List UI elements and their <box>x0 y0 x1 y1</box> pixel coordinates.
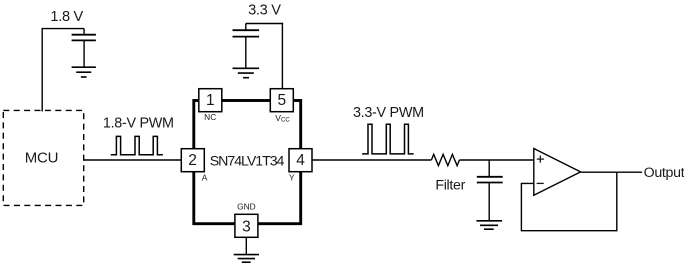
svg-text:1.8 V: 1.8 V <box>50 9 83 25</box>
MCU block <box>3 110 83 205</box>
capacitor: 3.3-V bypass cap <box>233 30 260 36</box>
svg-text:1: 1 <box>206 92 215 109</box>
svg-text:4: 4 <box>296 152 305 169</box>
wire: filter cap to ground <box>488 183 490 221</box>
waveform symbol: 3.3-V PWM pulses <box>362 124 414 154</box>
wire: op-amp output <box>581 171 643 173</box>
pin 4 box <box>289 149 312 172</box>
wire: 1.8-V rail down to MCU <box>41 28 43 112</box>
wire: 3.3-V cap to ground <box>245 37 247 69</box>
ground (1.8-V bypass) <box>72 67 96 77</box>
wire: resistor to op-amp + input <box>459 159 533 161</box>
wire: MCU output to pin 2 (A) <box>84 159 181 161</box>
wire: stub to 3.3-V bypass capacitor <box>245 24 247 31</box>
wire: pin 4 (Y) to filter resistor <box>312 159 431 161</box>
pin 1 box <box>199 89 222 112</box>
waveform symbol: 1.8-V PWM pulses <box>111 136 163 154</box>
op-amp U2 (buffer) <box>534 149 581 196</box>
svg-text:NC: NC <box>204 112 216 122</box>
svg-text:MCU: MCU <box>25 150 59 167</box>
svg-text:Filter: Filter <box>435 177 465 193</box>
wire: stub from node to filter capacitor <box>488 160 490 177</box>
svg-text:Y: Y <box>289 172 295 182</box>
pin 3 box <box>235 214 258 237</box>
pin 5 box <box>270 89 293 112</box>
wire: stub to 1.8-V bypass capacitor <box>83 29 85 35</box>
ground (IC GND) <box>234 255 259 263</box>
pin 2 box <box>181 149 204 172</box>
svg-text:3.3 V: 3.3 V <box>248 3 281 19</box>
wire: 1.8-V rail horizontal <box>42 28 84 30</box>
op-amp - input marking <box>537 182 544 184</box>
capacitor: 1.8-V bypass cap <box>72 35 96 41</box>
wire: pin 3 to ground <box>245 238 247 255</box>
ground (filter cap) <box>476 221 502 229</box>
resistor (Filter) <box>431 154 459 165</box>
capacitor: filter cap <box>477 177 503 183</box>
svg-text:SN74LV1T34: SN74LV1T34 <box>210 154 285 170</box>
svg-text:5: 5 <box>277 92 286 109</box>
op-amp + input marking <box>537 156 544 163</box>
ground (3.3-V bypass) <box>233 68 260 77</box>
wire: feedback from - input to output <box>521 172 616 231</box>
svg-text:Output: Output <box>644 165 684 181</box>
svg-text:GND: GND <box>237 202 256 212</box>
wire: 1.8-V cap to ground <box>83 40 85 67</box>
wire: 3.3-V rail down to VCC pin 5 <box>281 23 283 89</box>
svg-text:1.8-V PWM: 1.8-V PWM <box>103 116 174 132</box>
svg-text:2: 2 <box>188 152 197 169</box>
IC U1 SN74LV1T34 body <box>194 101 301 224</box>
wire: 3.3-V rail horizontal <box>246 23 283 25</box>
svg-text:3.3-V PWM: 3.3-V PWM <box>353 105 424 121</box>
svg-text:3: 3 <box>242 218 251 235</box>
svg-text:A: A <box>202 173 208 183</box>
